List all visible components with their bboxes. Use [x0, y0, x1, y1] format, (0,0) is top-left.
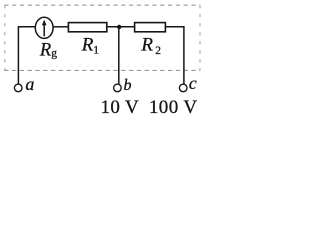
svg-text:c: c — [189, 73, 197, 93]
wire: current source to R1 — [53, 26, 69, 28]
wire: R1 to R2 through node b — [107, 26, 135, 28]
svg-text:b: b — [124, 77, 132, 94]
dashed enclosure box: left edge — [4, 5, 6, 70]
resistor R1 (box) — [68, 23, 106, 32]
wire: junction down to terminal b — [118, 27, 120, 84]
svg-text:Rg: Rg — [39, 41, 57, 61]
svg-text:R2: R2 — [140, 35, 161, 58]
dashed enclosure box: bottom edge — [4, 69, 200, 71]
wire: terminal a up and right to current source — [18, 27, 35, 84]
svg-text:R1: R1 — [81, 34, 100, 56]
svg-text:100 V: 100 V — [149, 97, 198, 118]
terminal c (open circle) — [179, 84, 187, 92]
current source Rg: arrow — [42, 20, 47, 37]
svg-text:10 V: 10 V — [101, 97, 140, 118]
junction dot (node above b) — [117, 25, 121, 29]
terminal a (open circle) — [14, 84, 22, 92]
current source Rg: circle — [35, 17, 53, 38]
dashed enclosure box: right edge — [199, 5, 201, 70]
wire: R2 right and down to terminal c — [165, 27, 184, 84]
terminal b (open circle) — [114, 84, 122, 92]
dashed enclosure box: top edge — [4, 4, 200, 6]
svg-text:a: a — [25, 74, 34, 94]
resistor R2 (box) — [135, 23, 166, 32]
